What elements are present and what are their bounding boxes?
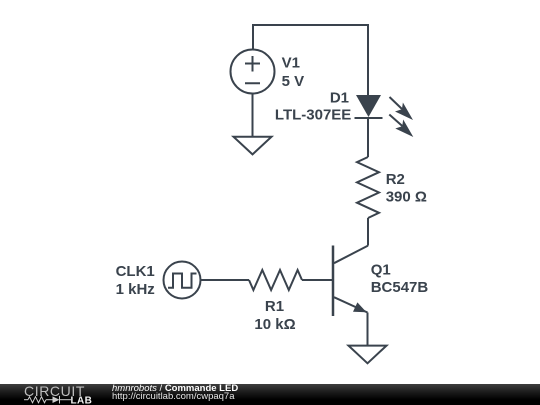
svg-text:BC547B: BC547B [371, 279, 429, 296]
svg-text:D1: D1 [330, 90, 349, 107]
wire rail to D1 anode [367, 24, 369, 95]
wire V1 top to rail [252, 25, 254, 50]
transistor Q1 [333, 246, 368, 317]
svg-text:390 Ω: 390 Ω [386, 189, 427, 206]
wire D1 to R2 [367, 118, 369, 157]
svg-text:CLK1: CLK1 [116, 263, 155, 280]
footer credit line 1 [112, 383, 238, 394]
ground (below Q1) [349, 346, 387, 364]
svg-text:R2: R2 [386, 171, 405, 188]
wire Q1 emitter to ground [367, 313, 369, 346]
svg-text:1 kHz: 1 kHz [116, 281, 155, 298]
wire top rail [252, 24, 369, 26]
svg-text:V1: V1 [282, 54, 300, 71]
wire R2 to Q1 collector [367, 218, 369, 246]
resistor R1 [249, 270, 302, 290]
svg-text:Q1: Q1 [371, 261, 391, 278]
ground (below V1) [234, 137, 272, 155]
footer bar [0, 384, 540, 405]
CircuitLab logo [0, 384, 100, 405]
wire CLK1 to R1 [201, 279, 250, 281]
svg-text:5 V: 5 V [282, 73, 305, 90]
svg-text:10 kΩ: 10 kΩ [254, 316, 295, 333]
voltage source V1 [231, 50, 275, 94]
LED D1 [355, 95, 414, 137]
resistor R2 [357, 157, 379, 218]
svg-text:LAB: LAB [71, 395, 93, 405]
wire V1 to ground [252, 94, 254, 137]
footer credit line 2 [112, 391, 235, 402]
wire R1 to Q1 base [302, 279, 333, 281]
svg-text:R1: R1 [265, 298, 284, 315]
clock source CLK1 [164, 262, 201, 299]
svg-text:LTL-307EE: LTL-307EE [275, 106, 351, 123]
